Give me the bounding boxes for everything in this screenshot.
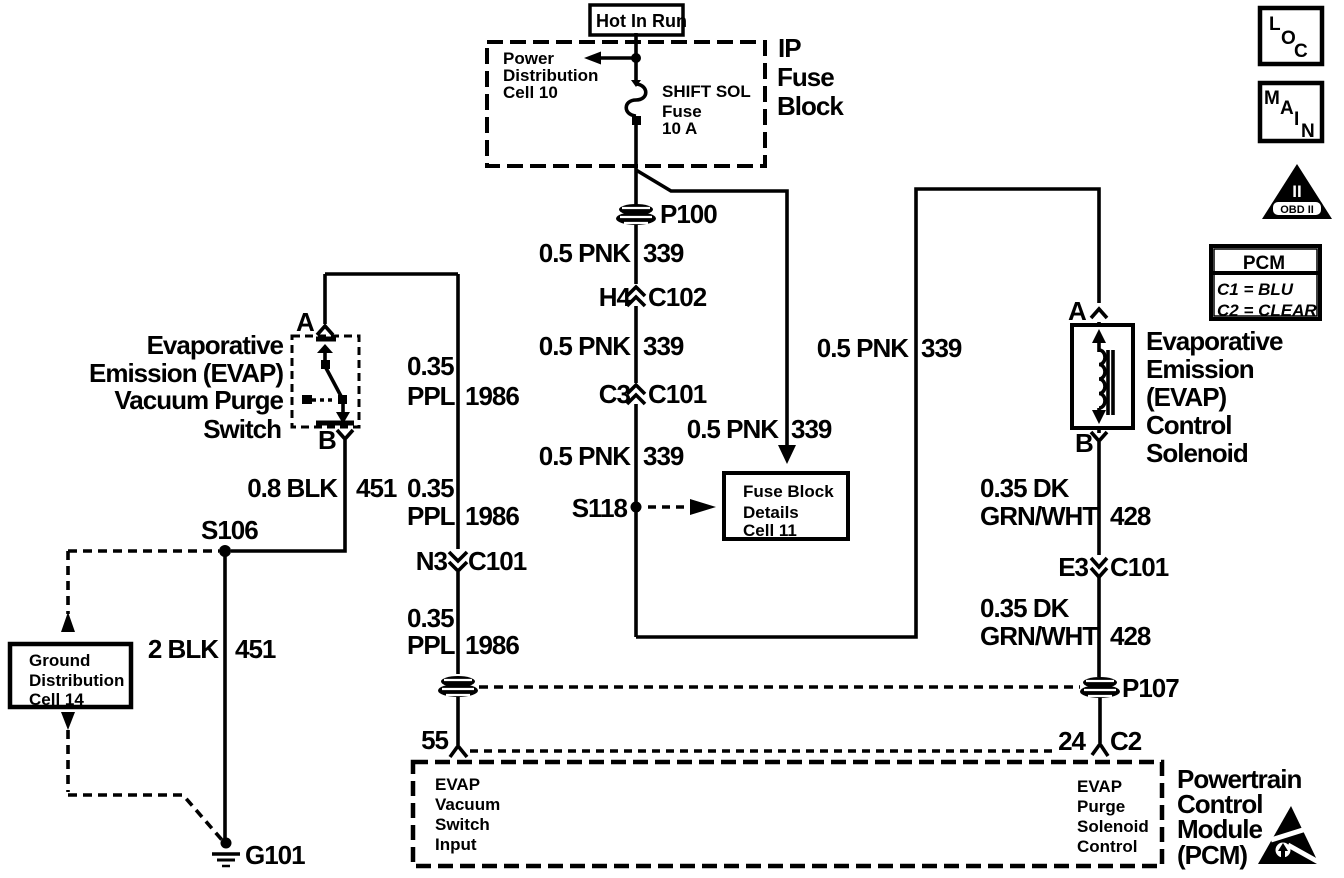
- svg-text:P107: P107: [1122, 673, 1179, 703]
- svg-text:C2: C2: [1110, 726, 1142, 756]
- svg-text:Control: Control: [1146, 410, 1231, 440]
- svg-text:339: 339: [791, 414, 832, 444]
- svg-text:N3: N3: [416, 546, 448, 576]
- svg-text:(EVAP): (EVAP): [1146, 382, 1227, 412]
- svg-text:OBD II: OBD II: [1280, 204, 1314, 216]
- svg-text:II: II: [1292, 182, 1301, 201]
- svg-text:C2 = CLEAR: C2 = CLEAR: [1217, 301, 1317, 320]
- svg-text:GRN/WHT: GRN/WHT: [980, 621, 1098, 651]
- svg-text:Evaporative: Evaporative: [1146, 326, 1283, 356]
- svg-text:I: I: [1294, 109, 1299, 130]
- svg-text:C101: C101: [648, 379, 707, 409]
- svg-text:N: N: [1301, 121, 1315, 142]
- svg-text:Purge: Purge: [1077, 797, 1125, 816]
- svg-text:G101: G101: [245, 840, 305, 870]
- svg-text:339: 339: [643, 238, 684, 268]
- svg-text:428: 428: [1110, 501, 1151, 531]
- svg-text:L: L: [1269, 14, 1281, 35]
- svg-text:339: 339: [643, 331, 684, 361]
- svg-text:0.35: 0.35: [407, 351, 454, 381]
- svg-text:PPL: PPL: [407, 381, 456, 411]
- svg-text:Input: Input: [435, 835, 477, 854]
- svg-text:PPL: PPL: [407, 630, 456, 660]
- svg-text:1986: 1986: [465, 381, 519, 411]
- svg-text:P100: P100: [660, 199, 717, 229]
- svg-text:C101: C101: [468, 546, 527, 576]
- svg-text:Fuse: Fuse: [777, 62, 834, 92]
- svg-text:Solenoid: Solenoid: [1077, 817, 1149, 836]
- svg-text:Cell 11: Cell 11: [743, 521, 797, 540]
- svg-text:0.8 BLK: 0.8 BLK: [247, 473, 338, 503]
- svg-text:Block: Block: [777, 91, 844, 121]
- svg-text:Emission (EVAP): Emission (EVAP): [89, 358, 283, 388]
- svg-text:Evaporative: Evaporative: [147, 330, 284, 360]
- svg-text:0.35: 0.35: [407, 473, 454, 503]
- svg-text:B: B: [1075, 428, 1093, 458]
- svg-text:Hot In Run: Hot In Run: [596, 11, 687, 31]
- svg-text:C: C: [1294, 41, 1308, 62]
- svg-text:EVAP: EVAP: [1077, 777, 1122, 796]
- svg-text:S106: S106: [201, 515, 258, 545]
- svg-text:B: B: [318, 425, 336, 455]
- svg-text:451: 451: [235, 634, 276, 664]
- svg-text:A: A: [296, 307, 315, 337]
- svg-text:Emission: Emission: [1146, 354, 1254, 384]
- svg-text:Solenoid: Solenoid: [1146, 438, 1248, 468]
- svg-text:55: 55: [421, 725, 448, 755]
- svg-text:Distribution: Distribution: [29, 671, 124, 690]
- svg-text:SHIFT SOL: SHIFT SOL: [662, 82, 751, 101]
- svg-text:Switch: Switch: [203, 414, 281, 444]
- svg-text:0.35 DK: 0.35 DK: [980, 473, 1070, 503]
- svg-text:(PCM): (PCM): [1177, 840, 1247, 870]
- svg-text:H4: H4: [599, 282, 632, 312]
- svg-text:0.5 PNK: 0.5 PNK: [539, 238, 631, 268]
- svg-text:451: 451: [356, 473, 397, 503]
- svg-text:Ground: Ground: [29, 651, 90, 670]
- svg-text:0.35: 0.35: [407, 603, 454, 633]
- svg-text:339: 339: [921, 333, 962, 363]
- svg-text:EVAP: EVAP: [435, 775, 480, 794]
- svg-text:E3: E3: [1058, 552, 1088, 582]
- svg-text:A: A: [1068, 296, 1087, 326]
- svg-text:0.5 PNK: 0.5 PNK: [539, 331, 631, 361]
- svg-text:C1 = BLU: C1 = BLU: [1217, 280, 1294, 299]
- svg-text:PPL: PPL: [407, 501, 456, 531]
- svg-text:2 BLK: 2 BLK: [148, 634, 219, 664]
- svg-text:1986: 1986: [465, 630, 519, 660]
- svg-text:1986: 1986: [465, 501, 519, 531]
- svg-text:Cell 14: Cell 14: [29, 690, 84, 709]
- svg-text:A: A: [1280, 98, 1294, 119]
- svg-text:S118: S118: [572, 493, 628, 523]
- svg-text:M: M: [1264, 88, 1280, 109]
- svg-text:Details: Details: [743, 503, 799, 522]
- svg-text:Cell 10: Cell 10: [503, 83, 558, 102]
- svg-text:Vacuum Purge: Vacuum Purge: [114, 385, 283, 415]
- svg-text:Vacuum: Vacuum: [435, 795, 500, 814]
- svg-text:PCM: PCM: [1243, 253, 1285, 274]
- svg-text:C3: C3: [599, 379, 631, 409]
- svg-text:GRN/WHT: GRN/WHT: [980, 501, 1098, 531]
- svg-text:C101: C101: [1110, 552, 1169, 582]
- svg-text:10 A: 10 A: [662, 119, 697, 138]
- svg-text:C102: C102: [648, 282, 707, 312]
- svg-text:0.5 PNK: 0.5 PNK: [687, 414, 779, 444]
- svg-text:24: 24: [1058, 726, 1086, 756]
- svg-text:Fuse Block: Fuse Block: [743, 482, 834, 501]
- svg-text:428: 428: [1110, 621, 1151, 651]
- svg-text:Switch: Switch: [435, 815, 490, 834]
- svg-text:0.5 PNK: 0.5 PNK: [539, 441, 631, 471]
- svg-text:Control: Control: [1077, 837, 1137, 856]
- svg-text:0.5 PNK: 0.5 PNK: [817, 333, 909, 363]
- svg-text:IP: IP: [778, 33, 801, 63]
- svg-text:339: 339: [643, 441, 684, 471]
- svg-text:0.35 DK: 0.35 DK: [980, 593, 1070, 623]
